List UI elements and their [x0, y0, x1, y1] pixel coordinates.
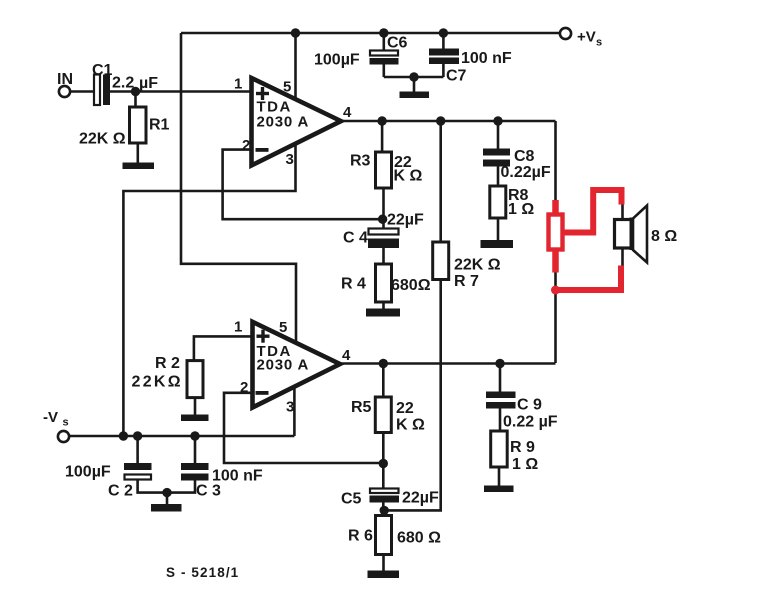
svg-text:2.2: 2.2: [112, 75, 134, 92]
svg-text:3: 3: [286, 399, 294, 416]
svg-text:8 Ω: 8 Ω: [651, 228, 677, 245]
svg-text:680 Ω: 680 Ω: [397, 530, 441, 547]
svg-text:2030 A: 2030 A: [257, 357, 310, 374]
svg-text:100 nF: 100 nF: [461, 50, 512, 67]
ground C6/C7: [400, 77, 430, 98]
node R3/C4 feedback junction: [378, 215, 387, 224]
svg-text:100µF: 100µF: [314, 52, 360, 69]
svg-text:100 nF: 100 nF: [212, 468, 263, 485]
ground R4: [366, 309, 400, 317]
wire U2 output pin4: [340, 362, 556, 365]
svg-text:22K Ω: 22K Ω: [454, 257, 501, 274]
svg-text:C 3: C 3: [196, 483, 221, 500]
resistor R8 1 ohm: [490, 186, 535, 240]
svg-text:C6: C6: [387, 35, 408, 52]
wire +Vs top rail: [181, 32, 559, 35]
svg-text:0.22µF: 0.22µF: [501, 164, 551, 181]
svg-text:100µF: 100µF: [65, 464, 111, 481]
svg-text:-V: -V: [43, 409, 58, 426]
node C6 junction: [379, 28, 388, 37]
wire U1 pin5 to +Vs: [294, 33, 297, 99]
terminal IN: [57, 71, 73, 97]
svg-text:1: 1: [234, 76, 242, 93]
node pin5 U1 junction: [291, 28, 300, 37]
wire U2 pin3 to -Vs rail: [293, 387, 296, 436]
svg-text:2: 2: [242, 137, 250, 154]
svg-text:4: 4: [343, 104, 352, 121]
svg-text:C5: C5: [341, 491, 362, 508]
node C7 junction: [439, 28, 448, 37]
node R7 top: [436, 116, 445, 125]
svg-text:C 9: C 9: [517, 397, 542, 414]
svg-text:3: 3: [286, 151, 294, 168]
svg-text:R 6: R 6: [348, 528, 373, 545]
capacitor C6 100uF: [314, 33, 414, 77]
svg-text:22KΩ: 22KΩ: [132, 374, 183, 391]
ground R6: [368, 571, 400, 579]
red wire: box to speaker top: [562, 190, 622, 233]
svg-text:1: 1: [234, 319, 242, 336]
svg-text:R 7: R 7: [454, 273, 479, 290]
wire U1 pin2 feedback to R3/C4 node: [223, 150, 383, 220]
op-amp U1 TDA2030A: [234, 76, 352, 169]
svg-text:s: s: [63, 417, 69, 429]
svg-text:µF: µF: [139, 75, 158, 92]
resistor R1 22K: [79, 92, 170, 148]
svg-text:S - 5218/1: S - 5218/1: [166, 565, 239, 580]
svg-text:C 2: C 2: [108, 483, 133, 500]
node pin3 chain on -Vs: [119, 431, 128, 440]
wire C1 to U1 pin1: [110, 90, 252, 93]
op-amp U2 TDA2030A: [234, 319, 351, 416]
svg-text:R 9: R 9: [510, 439, 535, 456]
capacitor C5 22uF: [341, 464, 439, 516]
svg-text:22µF: 22µF: [387, 212, 424, 229]
svg-text:C 4: C 4: [343, 230, 368, 247]
wire +Vs to U2 pin5: [181, 33, 296, 343]
svg-text:680Ω: 680Ω: [391, 277, 431, 294]
node R5 top: [379, 359, 388, 368]
ground R1: [123, 143, 155, 169]
ground R8: [481, 240, 514, 248]
node C6/C7 ground junction: [409, 72, 418, 81]
svg-text:C1: C1: [92, 62, 113, 79]
capacitor C4 22uF: [343, 212, 424, 265]
svg-text:22K Ω: 22K Ω: [79, 131, 126, 148]
svg-text:0.22 µF: 0.22 µF: [503, 414, 558, 431]
svg-text:R5: R5: [351, 399, 372, 416]
capacitor C3 100nF: [167, 436, 263, 500]
resistor R2 22K: [132, 355, 204, 415]
wire -Vs rail: [69, 435, 294, 438]
terminal -Vs: [43, 409, 69, 442]
resistor R6 680: [348, 516, 441, 571]
resistor R5 22K: [351, 364, 425, 464]
capacitor C8 0.22uF: [483, 121, 551, 186]
svg-text:K Ω: K Ω: [396, 417, 425, 434]
drawing number: [166, 565, 239, 580]
node C2/C3 ground junction: [162, 488, 171, 497]
resistor R9 1 ohm: [491, 431, 539, 486]
node C2 on -Vs: [133, 431, 142, 440]
capacitor C7 100nF: [414, 33, 512, 85]
svg-text:s: s: [596, 37, 602, 49]
wire U1 pin3 to -Vs rail: [123, 143, 295, 436]
resistor R4 680: [341, 264, 431, 309]
speaker LS 8 ohm: [615, 204, 678, 266]
resistor R7 22K: [384, 121, 501, 510]
svg-text:K Ω: K Ω: [394, 168, 423, 185]
wire U1 output pin4: [341, 120, 556, 123]
svg-text:5: 5: [283, 79, 291, 96]
ground C2/C3: [151, 493, 182, 512]
node C5/R6/R7 junction: [380, 506, 389, 515]
resistor R3 22K: [350, 121, 423, 228]
wire IN to C1: [70, 90, 94, 93]
svg-text:5: 5: [279, 319, 287, 336]
node C8 top: [493, 116, 502, 125]
ground R9: [484, 486, 514, 493]
capacitor C9 0.22uF: [486, 364, 558, 432]
wire U2 pin2 to R5/C5 node: [224, 393, 383, 463]
capacitor C2 100uF: [65, 436, 167, 500]
wire U2 pin1 to R2: [194, 336, 253, 360]
svg-text:R 2: R 2: [155, 355, 180, 372]
svg-text:R1: R1: [149, 117, 170, 134]
wire right bridge vertical: [554, 121, 557, 363]
terminal +Vs: [560, 28, 602, 49]
svg-text:R 4: R 4: [341, 276, 366, 293]
node R5/C5 feedback junction: [379, 459, 388, 468]
svg-text:1 Ω: 1 Ω: [508, 201, 534, 218]
svg-text:R3: R3: [350, 153, 371, 170]
capacitor C1 2.2uF: [92, 62, 158, 105]
red wire: speaker bottom return: [551, 266, 621, 295]
svg-text:4: 4: [342, 347, 351, 364]
node R3 top: [377, 116, 386, 125]
red annotation: series resistor box on bridge wire: [549, 200, 563, 273]
node C1/R1 junction: [131, 87, 140, 96]
node C9 top: [495, 359, 504, 368]
svg-text:C7: C7: [446, 68, 467, 85]
ground R2: [181, 415, 209, 422]
node C3 on -Vs: [190, 431, 199, 440]
svg-text:1 Ω: 1 Ω: [512, 456, 538, 473]
svg-text:22: 22: [396, 400, 414, 417]
svg-text:22µF: 22µF: [402, 490, 439, 507]
svg-text:C8: C8: [514, 148, 535, 165]
svg-text:2030 A: 2030 A: [257, 114, 310, 131]
svg-text:+V: +V: [577, 29, 596, 46]
